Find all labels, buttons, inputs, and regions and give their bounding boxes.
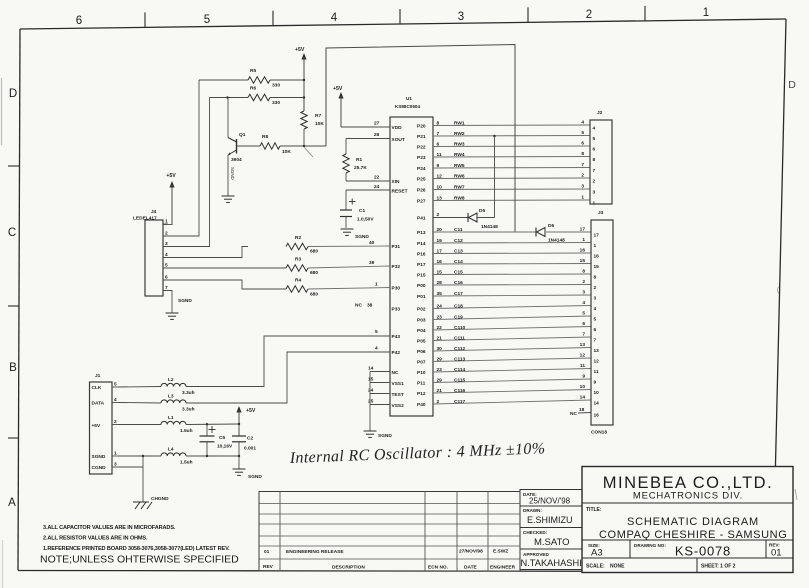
- svg-text:24: 24: [374, 184, 380, 190]
- svg-text:3: 3: [593, 190, 596, 196]
- wire J4 pin 7 to ground: [163, 291, 172, 314]
- svg-text:27: 27: [374, 121, 380, 127]
- title block title text: [586, 507, 787, 541]
- svg-text:SHEET: 1 OF 2: SHEET: 1 OF 2: [701, 564, 736, 570]
- svg-text:17: 17: [437, 248, 443, 254]
- svg-text:9: 9: [437, 163, 440, 169]
- wire net C112 U1 pin 30 to J3 pin 13: [433, 342, 591, 352]
- inductor L1 1.5uh: [118, 415, 239, 434]
- svg-text:SGND: SGND: [178, 298, 192, 304]
- svg-text:26: 26: [374, 132, 380, 138]
- wire U1 P43 to CLK line: [186, 336, 390, 387]
- svg-text:22: 22: [374, 175, 380, 181]
- svg-text:5: 5: [582, 311, 585, 317]
- wire net C113 U1 pin 29 to J3 pin 12: [433, 353, 591, 363]
- svg-text:1: 1: [581, 195, 584, 201]
- svg-text:R8: R8: [262, 134, 268, 140]
- svg-text:680: 680: [310, 292, 318, 298]
- svg-text:KS-0078: KS-0078: [675, 544, 731, 559]
- scan artifact paper edge left: [2, 78, 3, 588]
- svg-text:N.TAKAHASHI: N.TAKAHASHI: [521, 558, 582, 568]
- wire net C115 U1 pin 29 to J3 pin 9: [433, 374, 591, 384]
- svg-text:RW1: RW1: [454, 120, 465, 126]
- J4 pin numbers: [163, 219, 168, 292]
- svg-text:7: 7: [594, 338, 597, 344]
- svg-text:DATA: DATA: [92, 401, 105, 407]
- notes text: [40, 525, 239, 566]
- svg-text:6: 6: [594, 327, 597, 333]
- grid row letters: [8, 79, 796, 509]
- svg-text:6: 6: [582, 321, 585, 327]
- svg-text:1: 1: [165, 219, 168, 225]
- svg-text:14: 14: [580, 395, 586, 401]
- connector J3 CON18: [591, 210, 613, 436]
- U1 right pin labels: [417, 124, 426, 409]
- svg-text:P27: P27: [417, 199, 426, 205]
- svg-text:C14: C14: [454, 259, 463, 265]
- svg-text:P01: P01: [417, 294, 426, 300]
- svg-text:10: 10: [594, 390, 600, 396]
- wire J4 pin 4 to R2: [163, 247, 248, 258]
- svg-text:2: 2: [437, 399, 440, 405]
- svg-text:13: 13: [594, 348, 600, 354]
- svg-text:CHGND: CHGND: [151, 496, 169, 502]
- svg-text:C15: C15: [454, 269, 463, 275]
- svg-text:RW4: RW4: [454, 152, 465, 158]
- svg-text:2: 2: [594, 285, 597, 291]
- svg-text:C115: C115: [454, 377, 466, 383]
- title block size drawing number rev: [586, 543, 782, 570]
- IC U1 KS88C0504 microcontroller: [390, 96, 433, 416]
- svg-text:680: 680: [310, 249, 318, 255]
- svg-text:2: 2: [586, 9, 592, 21]
- power +5V arrow at C2: [236, 406, 256, 436]
- power +5V arrow at U1 VDD: [333, 86, 390, 127]
- svg-text:7: 7: [437, 131, 440, 137]
- U1 left pin numbers: [355, 121, 380, 405]
- svg-text:P07: P07: [417, 360, 426, 366]
- svg-text:NC: NC: [392, 370, 399, 376]
- svg-text:29: 29: [437, 377, 443, 383]
- svg-text:24: 24: [437, 303, 443, 309]
- svg-text:P12: P12: [417, 391, 426, 397]
- svg-text:P15: P15: [417, 273, 426, 279]
- svg-text:10: 10: [580, 384, 586, 390]
- wire J1 CGND to chassis ground: [118, 455, 144, 502]
- svg-text:SCALE:: SCALE:: [586, 564, 605, 570]
- svg-text:+5V: +5V: [166, 173, 176, 179]
- wire net RW5 U1 pin 9 to J2 pin 7: [433, 162, 590, 169]
- svg-text:15: 15: [580, 258, 586, 264]
- svg-text:E.SWZ: E.SWZ: [493, 549, 508, 555]
- svg-text:3: 3: [458, 11, 464, 23]
- svg-text:B: B: [9, 362, 17, 374]
- power +5V arrow at J4 pin 1: [163, 173, 176, 225]
- svg-text:LEDEL417: LEDEL417: [133, 216, 157, 222]
- svg-text:3.ALL CAPACITOR VALUES ARE IN: 3.ALL CAPACITOR VALUES ARE IN MICROFARAD…: [43, 525, 176, 531]
- svg-text:C19: C19: [454, 314, 463, 320]
- svg-text:VDD: VDD: [392, 125, 403, 131]
- svg-text:DRAWING NO:: DRAWING NO:: [634, 543, 666, 548]
- svg-text:P10: P10: [417, 370, 426, 376]
- net label SGND vertical at Q1 emitter: [230, 167, 235, 180]
- ground SGND at U1 VSS: [364, 431, 393, 439]
- svg-text:+5V: +5V: [333, 86, 343, 92]
- svg-text:REV: REV: [263, 564, 274, 570]
- svg-text:R6: R6: [250, 86, 256, 92]
- svg-text:19: 19: [437, 238, 443, 244]
- svg-text:SGND: SGND: [248, 474, 262, 480]
- svg-text:1: 1: [114, 451, 117, 457]
- svg-text:D5: D5: [479, 208, 485, 214]
- svg-text:21: 21: [437, 335, 443, 341]
- svg-text:10,16V: 10,16V: [217, 444, 233, 450]
- svg-text:330: 330: [272, 83, 280, 89]
- grid column numbers: [76, 7, 709, 27]
- svg-text:J1: J1: [95, 373, 101, 379]
- svg-text:3.3uh: 3.3uh: [182, 407, 195, 413]
- svg-text:SGND: SGND: [92, 454, 106, 460]
- svg-text:P14: P14: [417, 241, 426, 247]
- svg-text:1: 1: [582, 237, 585, 243]
- svg-text:1.5uh: 1.5uh: [180, 428, 193, 434]
- svg-text:4: 4: [582, 300, 585, 306]
- scan artifact diagonal mark: [304, 147, 313, 157]
- svg-text:P21: P21: [417, 134, 426, 140]
- svg-text:R4: R4: [295, 278, 301, 284]
- svg-text:R5: R5: [250, 68, 256, 74]
- svg-text:16: 16: [580, 248, 586, 254]
- wire U1 P42 to DATA line: [186, 352, 390, 403]
- svg-text:R2: R2: [295, 235, 301, 241]
- inductor L3 3.3uh: [118, 394, 195, 413]
- wire net C13 U1 pin 17 to J3 pin 16: [433, 248, 591, 255]
- svg-text:P22: P22: [417, 145, 426, 151]
- svg-text:25: 25: [368, 399, 374, 405]
- svg-text:P43: P43: [392, 334, 401, 340]
- svg-text:4: 4: [375, 346, 378, 352]
- resistor R5 330: [199, 68, 305, 89]
- svg-text:8: 8: [582, 269, 585, 275]
- svg-text:30: 30: [437, 346, 443, 352]
- svg-text:29: 29: [437, 356, 443, 362]
- svg-text:2.ALL RESISTOR VALUES ARE IN O: 2.ALL RESISTOR VALUES ARE IN OHMS.: [43, 536, 148, 542]
- power +5V arrow top: [295, 47, 307, 111]
- svg-text:5: 5: [204, 14, 210, 26]
- svg-text:8: 8: [594, 275, 597, 281]
- svg-text:P16: P16: [417, 252, 426, 258]
- svg-text:P05: P05: [417, 339, 426, 345]
- svg-text:23: 23: [437, 314, 443, 320]
- svg-text:D6: D6: [548, 223, 554, 229]
- svg-text:1N4148: 1N4148: [481, 224, 498, 230]
- wire net C12 U1 pin 19 to J3 pin 1: [433, 237, 591, 244]
- svg-text:Q1: Q1: [239, 132, 246, 138]
- svg-text:L4: L4: [168, 447, 174, 453]
- svg-text:P06: P06: [417, 349, 426, 355]
- svg-text:D: D: [788, 79, 796, 91]
- svg-text:ENGINEER: ENGINEER: [490, 565, 516, 571]
- resistor R6 330: [210, 86, 306, 107]
- svg-text:DRAWN:: DRAWN:: [523, 508, 542, 513]
- wire node OSC from R8 up and across to D6 row: [326, 45, 515, 233]
- diode D6 1N4148: [536, 223, 565, 244]
- svg-text:ENGINEERING RELEASE: ENGINEERING RELEASE: [286, 549, 344, 555]
- svg-text:TEST: TEST: [392, 392, 404, 398]
- svg-text:14: 14: [594, 401, 600, 407]
- svg-text:2: 2: [593, 179, 596, 185]
- svg-text:8: 8: [581, 151, 584, 157]
- ground SGND at J4 pin 7: [166, 298, 193, 319]
- wire net C116 U1 pin 21 to J3 pin 10: [433, 384, 591, 394]
- svg-text:1: 1: [593, 201, 596, 207]
- wire net C11 U1 pin 20 to J3 pin 17: [433, 227, 591, 233]
- title block: [582, 467, 793, 573]
- svg-text:P42: P42: [392, 350, 401, 356]
- J1 pin numbers: [112, 382, 118, 468]
- inductor L2 3.3uh: [118, 377, 195, 396]
- svg-text:1: 1: [703, 7, 709, 19]
- svg-text:4: 4: [331, 12, 338, 24]
- svg-text:P03: P03: [417, 318, 426, 324]
- svg-text:01: 01: [771, 548, 782, 559]
- svg-text:4: 4: [114, 397, 117, 403]
- svg-text:+5V: +5V: [295, 47, 305, 53]
- svg-text:12: 12: [594, 359, 600, 365]
- svg-text:DATE: DATE: [464, 565, 478, 571]
- svg-text:C2: C2: [247, 436, 253, 442]
- svg-text:P31: P31: [392, 244, 401, 250]
- svg-text:1.0,50V: 1.0,50V: [357, 217, 374, 223]
- capacitor C2 0.001: [232, 436, 256, 470]
- wire net C110 U1 pin 22 to J3 pin 6: [433, 321, 591, 331]
- svg-text:C16: C16: [454, 280, 463, 286]
- svg-text:P40: P40: [417, 402, 426, 408]
- svg-text:VSS2: VSS2: [392, 403, 405, 409]
- svg-text:P24: P24: [417, 166, 426, 172]
- svg-text:P30: P30: [392, 286, 401, 292]
- svg-text:NC: NC: [570, 411, 577, 417]
- svg-text:P17: P17: [417, 262, 426, 268]
- svg-text:RW8: RW8: [454, 195, 465, 201]
- wire net RW4 U1 pin 11 to J2 pin 8: [433, 151, 590, 158]
- svg-text:RW6: RW6: [454, 173, 465, 179]
- wire net C15 U1 pin 15 to J3 pin 8: [433, 269, 591, 276]
- svg-text:7: 7: [582, 332, 585, 338]
- svg-text:13: 13: [437, 195, 443, 201]
- svg-text:RW7: RW7: [454, 184, 465, 190]
- svg-text:C11: C11: [454, 227, 463, 233]
- svg-text:16: 16: [437, 259, 443, 265]
- connector J4 LEDEL417: [133, 209, 163, 296]
- svg-text:4: 4: [581, 120, 584, 126]
- svg-text:4: 4: [594, 306, 597, 312]
- svg-text:SCHEMATIC DIAGRAM: SCHEMATIC DIAGRAM: [627, 516, 759, 528]
- svg-text:14: 14: [368, 366, 374, 372]
- svg-text:3: 3: [582, 290, 585, 296]
- svg-text:RESET: RESET: [392, 189, 408, 195]
- svg-text:C17: C17: [454, 291, 463, 297]
- scan artifact mark right margin: [795, 489, 797, 500]
- svg-text:3904: 3904: [231, 157, 242, 163]
- svg-text:28: 28: [437, 280, 443, 286]
- svg-text:15: 15: [368, 377, 374, 383]
- svg-text:P20: P20: [417, 124, 426, 130]
- svg-text:15: 15: [594, 264, 600, 270]
- wire net C16 U1 pin 28 to J3 pin 2: [433, 279, 591, 286]
- svg-text:P26: P26: [417, 188, 426, 194]
- svg-text:18: 18: [579, 407, 585, 413]
- svg-text:RW5: RW5: [454, 163, 465, 169]
- revision table: [259, 492, 520, 572]
- transistor Q1 3904: [228, 98, 260, 197]
- svg-text:U1: U1: [406, 96, 412, 101]
- wire net C14 U1 pin 16 to J3 pin 15: [433, 258, 591, 265]
- chassis ground CHGND: [133, 496, 169, 509]
- svg-text:P33: P33: [392, 307, 401, 313]
- svg-text:5: 5: [375, 329, 378, 335]
- svg-text:KS88C0504: KS88C0504: [395, 104, 420, 109]
- svg-text:SGND: SGND: [355, 234, 369, 240]
- svg-text:VSS1: VSS1: [392, 381, 405, 387]
- svg-text:1: 1: [375, 282, 378, 288]
- svg-text:C: C: [8, 227, 16, 239]
- svg-text:RW2: RW2: [454, 131, 465, 137]
- svg-text:0.001: 0.001: [244, 446, 256, 452]
- wire net C114 U1 pin 23 to J3 pin 11: [433, 363, 591, 373]
- capacitor C1 1.0,50V: [340, 190, 390, 228]
- svg-text:17: 17: [580, 227, 586, 233]
- svg-text:3: 3: [114, 462, 117, 468]
- svg-text:L3: L3: [168, 394, 174, 400]
- svg-text:C113: C113: [454, 356, 466, 362]
- svg-text:17: 17: [594, 233, 600, 239]
- svg-text:MECHATRONICS DIV.: MECHATRONICS DIV.: [633, 491, 743, 502]
- svg-text:20: 20: [437, 227, 443, 233]
- wire net RW6 U1 pin 12 to J2 pin 2: [433, 173, 590, 180]
- svg-text:L2: L2: [168, 377, 174, 383]
- svg-text:APPROVED: APPROVED: [523, 552, 549, 557]
- svg-text:C116: C116: [454, 388, 466, 394]
- svg-text:10K: 10K: [282, 149, 291, 155]
- svg-text:25/NOV/'98: 25/NOV/'98: [529, 497, 571, 506]
- svg-text:C117: C117: [454, 399, 466, 405]
- svg-text:24: 24: [368, 388, 374, 394]
- svg-text:12: 12: [580, 353, 586, 359]
- connector J1: [90, 373, 113, 474]
- svg-text:5: 5: [114, 382, 117, 388]
- svg-text:R3: R3: [295, 257, 301, 263]
- capacitor C5 10,16V electrolytic: [200, 423, 234, 457]
- svg-text:10: 10: [437, 184, 443, 190]
- svg-text:8: 8: [437, 120, 440, 126]
- svg-text:9: 9: [594, 380, 597, 386]
- svg-text:P25: P25: [417, 177, 426, 183]
- svg-text:C12: C12: [454, 238, 463, 244]
- svg-text:P23: P23: [417, 155, 426, 161]
- svg-text:6: 6: [76, 15, 82, 27]
- svg-text:J2: J2: [597, 110, 603, 116]
- svg-text:C18: C18: [454, 303, 463, 309]
- svg-text:25.7K: 25.7K: [354, 165, 367, 171]
- connector J2: [590, 110, 612, 207]
- title block company text: [603, 474, 773, 502]
- wire net C111 U1 pin 21 to J3 pin 7: [433, 332, 591, 342]
- svg-text:2: 2: [437, 212, 440, 218]
- wire J4 pin 2 to R5: [163, 80, 199, 236]
- svg-text:11: 11: [437, 152, 442, 158]
- svg-text:J4: J4: [151, 209, 157, 215]
- svg-text:A3: A3: [591, 548, 603, 559]
- svg-text:11: 11: [594, 369, 599, 375]
- svg-text:330: 330: [272, 100, 280, 106]
- wire net RW2 U1 pin 7 to J2 pin 5: [433, 130, 590, 137]
- svg-text:M.SATO: M.SATO: [534, 537, 570, 548]
- svg-text:11: 11: [580, 363, 585, 369]
- svg-text:J3: J3: [598, 210, 604, 216]
- wire J4 pin 3 to R6: [163, 98, 210, 247]
- resistor R4 680: [163, 278, 390, 298]
- svg-text:CGND: CGND: [92, 465, 107, 471]
- svg-text:NC: NC: [355, 303, 362, 309]
- svg-text:P41: P41: [417, 216, 426, 222]
- wire D5 anode to RW2 net: [477, 135, 496, 218]
- svg-text:CON18: CON18: [591, 430, 607, 436]
- svg-text:7: 7: [581, 162, 584, 168]
- svg-text:8: 8: [593, 157, 596, 163]
- svg-text:C111: C111: [454, 335, 465, 341]
- svg-text:6: 6: [437, 141, 440, 147]
- svg-text:SGND: SGND: [230, 167, 235, 180]
- resistor R8 10K: [260, 134, 326, 155]
- svg-text:22: 22: [437, 325, 443, 331]
- svg-text:C112: C112: [454, 346, 466, 352]
- svg-text:680: 680: [310, 270, 318, 276]
- svg-text:01: 01: [264, 549, 270, 555]
- svg-text:16: 16: [594, 413, 600, 419]
- svg-text:P11: P11: [417, 381, 426, 387]
- wire net RW8 U1 pin 13 to J2 pin 1: [433, 195, 590, 202]
- svg-text:9: 9: [582, 374, 585, 380]
- ground SGND at C1: [341, 229, 370, 240]
- svg-text:C1: C1: [359, 208, 365, 214]
- wire net RW3 U1 pin 6 to J2 pin 6: [433, 141, 590, 148]
- svg-text:3.3uh: 3.3uh: [182, 390, 195, 396]
- svg-text:1.REFERENCE PRINTED BOARD 3058: 1.REFERENCE PRINTED BOARD 3058-3076,3058…: [43, 546, 230, 552]
- svg-text:E.SHIMIZU: E.SHIMIZU: [527, 515, 573, 525]
- svg-text:39: 39: [369, 260, 375, 266]
- svg-text:2: 2: [114, 419, 117, 425]
- svg-text:5: 5: [593, 136, 596, 142]
- svg-text:13: 13: [580, 342, 586, 348]
- svg-text:P32: P32: [392, 264, 401, 270]
- resistor R1 25.7K: [343, 139, 390, 182]
- svg-text:16: 16: [594, 254, 600, 260]
- handwritten note Internal RC Oscillator: [289, 440, 546, 467]
- svg-text:RW3: RW3: [454, 141, 465, 147]
- svg-text:38: 38: [367, 303, 373, 309]
- svg-text:COMPAQ CHESHIRE - SAMSUNG: COMPAQ CHESHIRE - SAMSUNG: [599, 529, 787, 541]
- svg-text:4: 4: [593, 126, 596, 132]
- resistor R7 10K: [301, 111, 325, 146]
- svg-text:3: 3: [594, 296, 597, 302]
- svg-text:C114: C114: [454, 367, 466, 373]
- svg-text:C110: C110: [454, 325, 466, 331]
- U1 left pin labels: [392, 125, 408, 409]
- svg-text:C5: C5: [219, 435, 225, 441]
- svg-text:6: 6: [593, 147, 596, 153]
- svg-text:ECN NO.: ECN NO.: [428, 565, 448, 571]
